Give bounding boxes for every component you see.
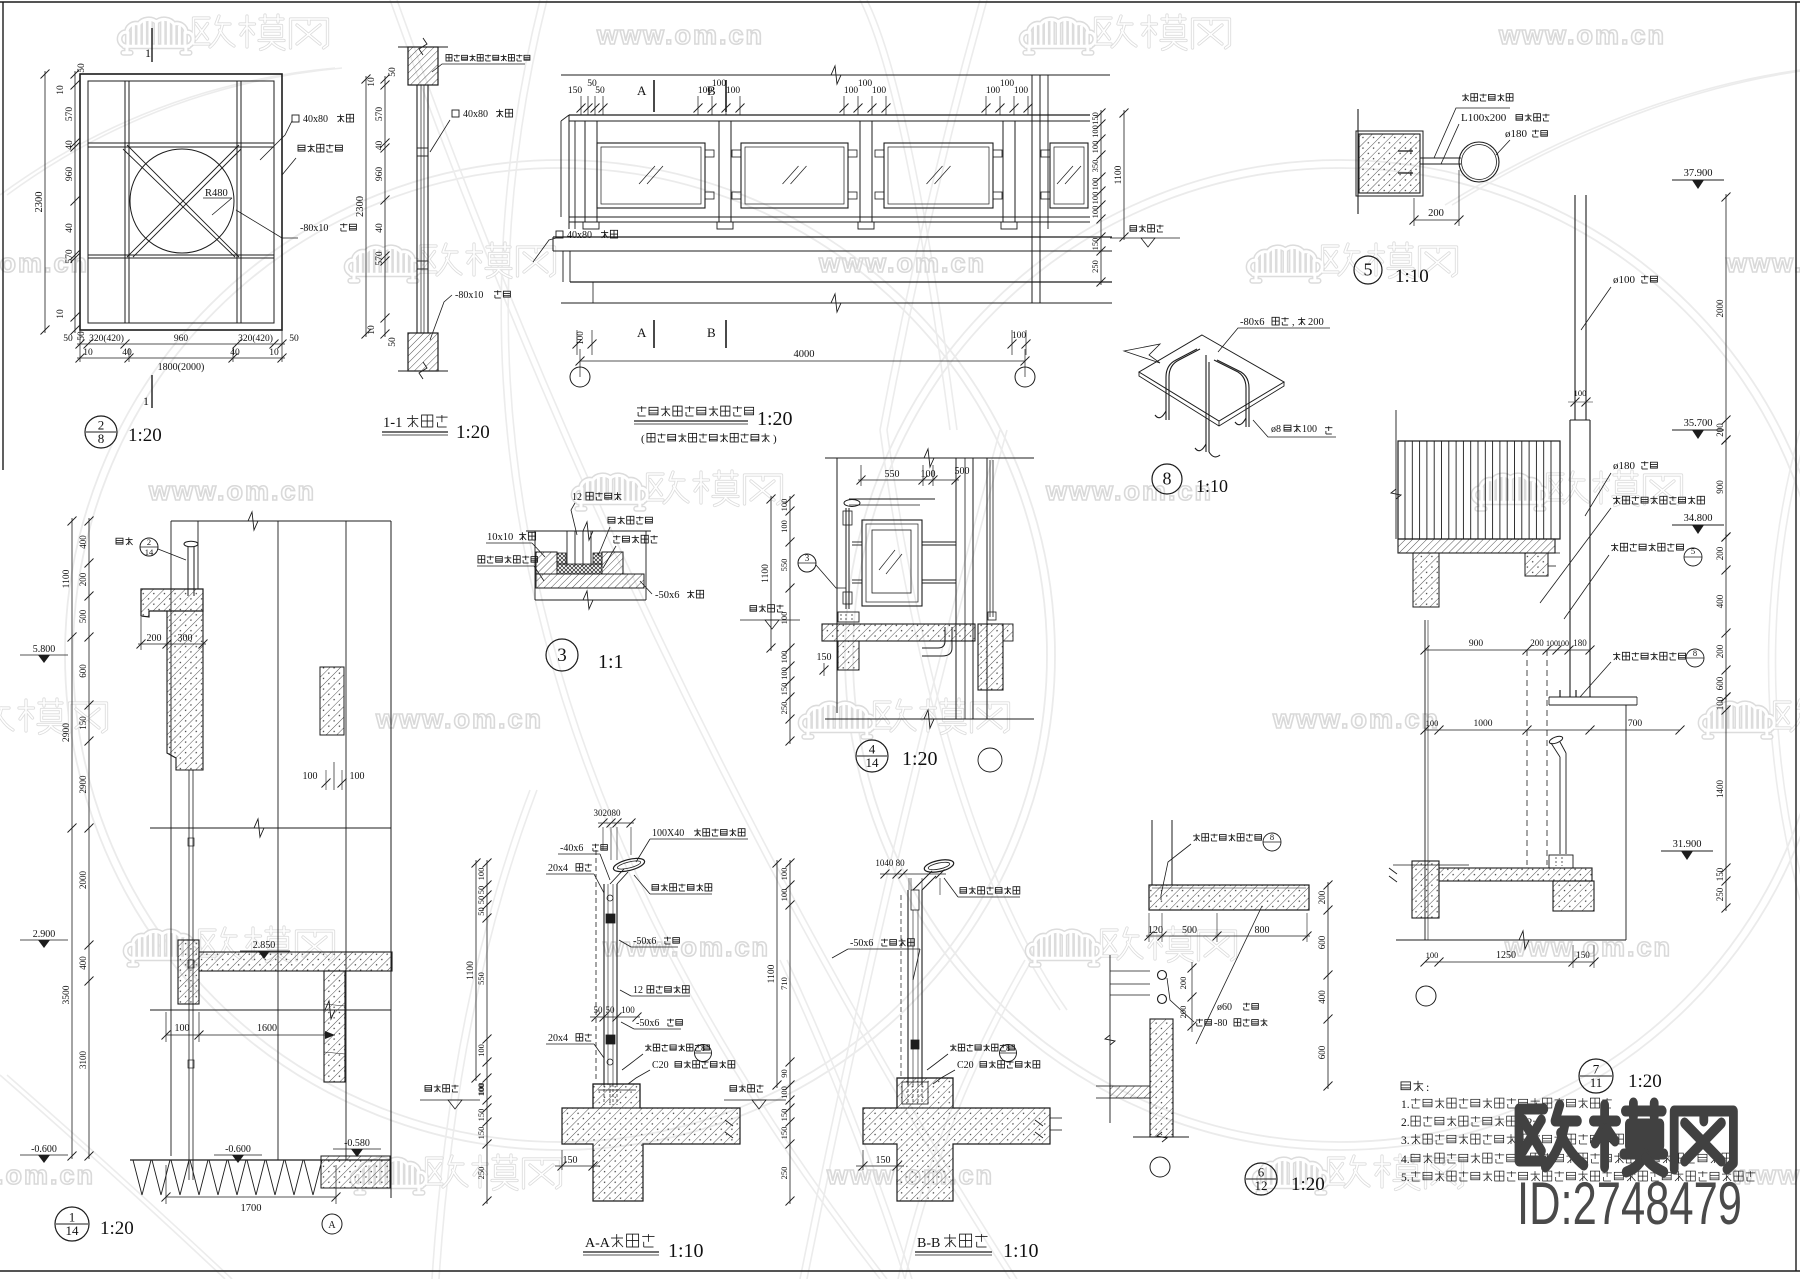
- panel mullions vertical: [124, 81, 126, 323]
- svg-text:www.om.cn: www.om.cn: [602, 932, 770, 962]
- svg-text:1.: 1.: [1401, 1099, 1410, 1111]
- panel bottom dim chain row2: [77, 357, 285, 359]
- svg-text:3: 3: [805, 553, 810, 563]
- svg-text:3.: 3.: [1401, 1135, 1410, 1147]
- svg-text:200: 200: [1530, 638, 1544, 648]
- r7 leader flatweld 5: [1613, 543, 1615, 551]
- svg-text:ø100: ø100: [1613, 274, 1636, 286]
- svg-text:B: B: [707, 325, 716, 340]
- detail3 left boundary: [534, 531, 536, 600]
- 1-1 left dim chain: [384, 76, 386, 337]
- d114 axis circle A: [322, 1214, 342, 1234]
- svg-text:200: 200: [78, 572, 88, 586]
- detail5 dim 200: [1414, 219, 1459, 221]
- r7 fence railing: [1398, 441, 1560, 539]
- AA left dim chain: [486, 860, 488, 1204]
- svg-text:1100: 1100: [761, 564, 771, 583]
- svg-text:12: 12: [633, 985, 643, 996]
- svg-text:100: 100: [779, 499, 789, 512]
- svg-text:50: 50: [388, 67, 398, 77]
- svg-text:100: 100: [844, 86, 859, 96]
- svg-text:www.om.cn: www.om.cn: [0, 248, 89, 278]
- svg-text:600: 600: [1715, 676, 1725, 690]
- svg-text:2.850: 2.850: [253, 940, 276, 951]
- detail5 hatched wall block: [1359, 134, 1420, 193]
- AA post details: [606, 914, 615, 923]
- svg-text:50: 50: [476, 896, 486, 905]
- svg-text:100: 100: [1302, 424, 1317, 435]
- r7 bracket shelf: [1549, 696, 1637, 698]
- svg-text:150: 150: [563, 1155, 578, 1166]
- svg-text:2.900: 2.900: [33, 929, 56, 940]
- svg-text:150: 150: [1090, 238, 1100, 251]
- BB leader polish: [960, 888, 967, 894]
- d114 mid floor break line: [150, 827, 391, 829]
- svg-text:100: 100: [1090, 178, 1100, 191]
- detail3 right channel block: [602, 552, 623, 574]
- BB floor level mark: [730, 1086, 737, 1092]
- detail4 window glass double line: [989, 460, 991, 617]
- svg-text:250: 250: [1090, 260, 1100, 273]
- svg-text:10: 10: [56, 85, 66, 95]
- svg-text:1100: 1100: [1114, 165, 1124, 184]
- d114 dim 1700: [166, 1196, 336, 1198]
- 1-1 label sealant: [446, 55, 452, 62]
- detail4 overall 1100: [770, 496, 772, 651]
- svg-text:1:10: 1:10: [1395, 266, 1429, 287]
- svg-text:www.om.cn: www.om.cn: [1272, 704, 1440, 734]
- d612 marker: [1245, 1163, 1277, 1195]
- svg-text:400: 400: [78, 956, 88, 970]
- svg-text:-50x6: -50x6: [636, 1018, 659, 1029]
- svg-text:4000: 4000: [794, 349, 815, 360]
- BB post verticals: [907, 890, 909, 1085]
- svg-text:1:20: 1:20: [1291, 1174, 1325, 1195]
- svg-text:4.: 4.: [1401, 1154, 1410, 1166]
- svg-text:100: 100: [872, 86, 887, 96]
- svg-text:1:10: 1:10: [668, 1240, 704, 1262]
- BB right stubs: [1050, 1117, 1062, 1119]
- svg-text:10x10: 10x10: [487, 532, 513, 543]
- svg-text:3: 3: [557, 645, 567, 666]
- svg-text:11: 11: [1590, 1075, 1603, 1090]
- svg-text:100: 100: [779, 667, 789, 680]
- svg-text:90: 90: [779, 1069, 789, 1078]
- svg-text:200: 200: [1308, 317, 1324, 328]
- svg-text:100: 100: [1557, 639, 1569, 648]
- big logo oumowang: [1519, 1103, 1733, 1172]
- svg-text:50: 50: [594, 1005, 604, 1015]
- AA leader weld embed: [647, 1044, 649, 1051]
- r7 marker 7/11: [1579, 1059, 1613, 1093]
- svg-text:www.om.cn: www.om.cn: [1045, 476, 1213, 506]
- svg-text:320(420): 320(420): [89, 333, 124, 344]
- svg-text:): ): [773, 433, 777, 445]
- detail4 slab hatch band: [822, 624, 975, 641]
- svg-text:150: 150: [476, 1109, 486, 1122]
- svg-text:C20: C20: [652, 1060, 669, 1071]
- panel mullions horizontal: [88, 142, 274, 144]
- svg-text:600: 600: [1317, 935, 1327, 949]
- svg-text:5: 5: [1691, 546, 1695, 556]
- svg-text:2300: 2300: [34, 192, 45, 213]
- svg-text:1400: 1400: [1715, 780, 1725, 799]
- elevation wall bottom line: [561, 302, 1112, 304]
- detail3 base plate: [536, 574, 644, 588]
- svg-text:550: 550: [779, 559, 789, 572]
- svg-text:20x4: 20x4: [548, 1033, 568, 1044]
- svg-text:40: 40: [230, 348, 240, 358]
- svg-text:960: 960: [375, 167, 385, 182]
- elevation floor level mark right: [1130, 226, 1137, 232]
- detail5 pipe circle: [1459, 142, 1499, 182]
- r7 slab left break arrows: [1389, 868, 1397, 882]
- r7 leader weld8: [1615, 652, 1617, 660]
- detail3 gaskets: [557, 553, 566, 564]
- elevation window panels: [597, 143, 705, 208]
- elevation left end post: [568, 115, 570, 229]
- elevation right dim chain inner: [1100, 110, 1102, 285]
- 1-1 overall dim 2300: [365, 76, 367, 337]
- r7 right dim chain mid: [1725, 534, 1727, 700]
- d612 left slab stub hatched: [1110, 1086, 1150, 1098]
- svg-text:100: 100: [476, 868, 486, 881]
- d114 wall inner lines: [202, 589, 204, 770]
- detail4 dims top: [858, 479, 959, 481]
- detail4 bottom break line: [825, 718, 1034, 720]
- svg-text:900: 900: [1715, 480, 1725, 494]
- r7 right edge vertical: [1625, 705, 1627, 940]
- svg-text:8: 8: [1270, 832, 1274, 842]
- big faint circle watermark right: [853, 168, 1800, 1142]
- elevation top wall line: [561, 74, 1110, 76]
- svg-text:100: 100: [1000, 79, 1015, 89]
- svg-text:50: 50: [77, 331, 87, 341]
- svg-text:570: 570: [65, 249, 75, 264]
- panel left dim chain: [74, 71, 76, 333]
- svg-text:250: 250: [779, 1167, 789, 1180]
- svg-text:100: 100: [350, 771, 365, 782]
- svg-text:100: 100: [476, 1044, 486, 1057]
- d114 lower break line: [150, 1009, 391, 1011]
- elevation posts: [584, 121, 586, 222]
- r7 slab left col hatched: [1413, 553, 1439, 607]
- watermark tiles lattice: [120, 15, 328, 53]
- svg-text:10: 10: [367, 77, 377, 87]
- svg-text:14: 14: [66, 1223, 80, 1238]
- svg-text:ø180: ø180: [1613, 460, 1636, 472]
- d612 beam hatched: [1149, 885, 1309, 910]
- svg-text:50: 50: [595, 86, 605, 96]
- svg-text:C20: C20: [957, 1060, 974, 1071]
- svg-text:ID:2748479: ID:2748479: [1517, 1170, 1742, 1237]
- AA foundation pocket: [593, 1084, 640, 1108]
- detail3 left channel block: [536, 552, 557, 574]
- svg-text:1-1: 1-1: [383, 415, 402, 431]
- svg-text:100: 100: [1014, 86, 1029, 96]
- detail8 bent bar left: [1166, 349, 1197, 420]
- svg-text:250: 250: [1715, 887, 1725, 901]
- AA hidden wall dashed: [595, 850, 597, 1080]
- faint swoosh curves: [880, 430, 1060, 1010]
- svg-text:100: 100: [1426, 950, 1439, 960]
- svg-text:50: 50: [289, 334, 299, 344]
- svg-text:,: ,: [1292, 317, 1295, 328]
- svg-text:L100x200: L100x200: [1461, 112, 1507, 124]
- r7 leader column200x500: [1615, 496, 1617, 504]
- detail8 center legs: [1205, 355, 1207, 452]
- svg-text:1:20: 1:20: [757, 408, 793, 430]
- svg-text:500: 500: [1182, 925, 1197, 936]
- svg-text:150: 150: [876, 1155, 891, 1166]
- r7 bottom dims 100 1250 150: [1425, 961, 1594, 963]
- d114 ground hatch: [133, 1160, 142, 1195]
- elevation right wall verticals: [1031, 75, 1033, 303]
- svg-text:120: 120: [1148, 925, 1163, 936]
- svg-text:3500: 3500: [62, 985, 72, 1004]
- svg-text:www.om.cn: www.om.cn: [1498, 20, 1666, 50]
- svg-text:700: 700: [1628, 719, 1643, 729]
- BB foundation pocket: [897, 1078, 953, 1108]
- detail5 bracket arm: [1420, 157, 1461, 159]
- detail3 bottom line: [535, 599, 646, 601]
- svg-text:960: 960: [65, 167, 75, 182]
- 1-1 break marks: [419, 38, 427, 55]
- BB overall 1100: [776, 860, 778, 1088]
- elevation lower rail: [569, 216, 1090, 218]
- svg-text:400: 400: [78, 535, 88, 549]
- svg-text:A: A: [637, 83, 647, 98]
- svg-text:50: 50: [388, 337, 398, 347]
- detail4 right hatched wall: [978, 624, 1003, 690]
- 1-1 section top hatched block: [408, 47, 438, 85]
- svg-text:500: 500: [955, 466, 970, 477]
- r7 drain pipe with cap: [1548, 735, 1563, 745]
- r7 mid dims 900 200 100 100 180: [1425, 649, 1590, 651]
- svg-text:2000: 2000: [78, 871, 88, 890]
- AA post verticals: [603, 884, 605, 1085]
- svg-text:1:10: 1:10: [1196, 476, 1228, 496]
- elevation handrail top: [569, 114, 1090, 116]
- d612 top verticals: [1151, 820, 1153, 885]
- svg-text:350: 350: [1090, 160, 1100, 173]
- svg-text:100: 100: [303, 771, 318, 782]
- detail8 plate parallelogram: [1139, 335, 1284, 421]
- detail4 stray circle: [978, 748, 1002, 772]
- svg-text:100: 100: [858, 79, 873, 89]
- svg-text:www.om.cn: www.om.cn: [0, 1160, 95, 1190]
- svg-text:200: 200: [1178, 977, 1188, 990]
- svg-text:100: 100: [1090, 206, 1100, 219]
- detail4 frame connectors: [852, 541, 862, 543]
- svg-text:40x80: 40x80: [567, 230, 592, 241]
- r7 right dim chain upper: [1725, 194, 1727, 443]
- detail4 left dim chain: [789, 496, 791, 744]
- svg-text:8: 8: [1006, 1044, 1010, 1053]
- svg-text:-0.600: -0.600: [225, 1144, 251, 1155]
- d114 parapet cap hatched: [141, 589, 203, 617]
- svg-text:600: 600: [78, 664, 88, 678]
- svg-text:R480: R480: [205, 188, 228, 199]
- svg-text:ø60: ø60: [1217, 1002, 1232, 1013]
- svg-text:100: 100: [712, 79, 727, 89]
- elevation overall dim 4000: [580, 360, 1025, 362]
- svg-text:1:20: 1:20: [1628, 1071, 1662, 1092]
- svg-text:400: 400: [1715, 594, 1725, 608]
- d114 rail embed line: [188, 770, 190, 1180]
- BB left dim chain: [789, 860, 791, 1204]
- svg-text:150: 150: [817, 652, 832, 663]
- svg-text:www.om.cn: www.om.cn: [148, 476, 316, 506]
- detail4 left vertical: [836, 458, 838, 713]
- svg-text:14: 14: [145, 547, 154, 557]
- svg-text:710: 710: [779, 977, 789, 990]
- panel overall dim 2300: [44, 71, 46, 333]
- AA leader polish: [652, 885, 659, 891]
- detail4 top rail lines: [849, 498, 935, 500]
- svg-text:31.900: 31.900: [1673, 839, 1702, 850]
- svg-text:5: 5: [1364, 259, 1373, 279]
- svg-text:100: 100: [726, 86, 741, 96]
- r7 pole upper: [1574, 195, 1576, 420]
- sheet border bottom: [0, 1270, 1800, 1272]
- svg-text:1: 1: [143, 394, 149, 408]
- svg-text:302080: 302080: [594, 808, 622, 818]
- svg-text:150: 150: [779, 1109, 789, 1122]
- svg-text:200: 200: [1317, 890, 1327, 904]
- detail4 marker: [856, 740, 888, 772]
- BB leader weld embed: [952, 1044, 954, 1051]
- d114 right found block hatched: [321, 1156, 390, 1188]
- svg-text:1100: 1100: [466, 961, 476, 980]
- d114 top line: [171, 520, 391, 522]
- elevation right dim overall 1100: [1123, 110, 1125, 240]
- d114 parapet wall hatched: [167, 611, 203, 770]
- svg-text:570: 570: [375, 251, 385, 266]
- svg-text:600: 600: [1317, 1045, 1327, 1059]
- detail3 rubber bed: [557, 564, 602, 574]
- svg-text:1000: 1000: [1474, 719, 1493, 729]
- svg-text:-80x10: -80x10: [455, 290, 483, 301]
- svg-text:-80x6: -80x6: [1240, 317, 1265, 328]
- svg-text:1700: 1700: [241, 1203, 262, 1214]
- svg-text:180: 180: [1573, 638, 1587, 648]
- d114 left dim chain outer: [71, 518, 73, 1159]
- panel detail 2/8 outer frame: [80, 74, 282, 330]
- d114 dim 100 1600: [166, 1034, 335, 1036]
- elevation small label 40x80: [556, 231, 563, 238]
- svg-text:5.800: 5.800: [33, 644, 56, 655]
- d612 leader embed flat: [1196, 1019, 1203, 1021]
- r7 dims 100 1000 700: [1425, 729, 1680, 731]
- svg-text:50: 50: [476, 907, 486, 916]
- 1-1 section panel vertical lines: [416, 85, 418, 333]
- d612 axis circle: [1150, 1157, 1170, 1177]
- marker 2/8 with scale: [85, 416, 117, 448]
- svg-text:250: 250: [779, 702, 789, 715]
- d612 dims 120 500 800: [1146, 935, 1310, 937]
- svg-text:900: 900: [1469, 639, 1484, 649]
- svg-text:1040 80: 1040 80: [875, 858, 905, 868]
- AA overall 1100: [475, 860, 477, 1081]
- detail8 marker: [1152, 464, 1182, 494]
- svg-text:1: 1: [145, 46, 151, 60]
- svg-text:550: 550: [476, 972, 486, 985]
- svg-text:1600: 1600: [257, 1023, 277, 1034]
- BB foundation right break marks: [1035, 1120, 1043, 1138]
- svg-text:100: 100: [1012, 331, 1027, 341]
- svg-text:1:10: 1:10: [1003, 1240, 1039, 1262]
- svg-text:200: 200: [1428, 208, 1444, 219]
- svg-text:1100: 1100: [767, 964, 777, 983]
- svg-text:100: 100: [779, 651, 789, 664]
- svg-text:570: 570: [375, 107, 385, 122]
- AA handrail arm: [610, 869, 624, 884]
- label 40x80 square tube with leader: [292, 115, 299, 122]
- svg-text:20x4: 20x4: [548, 863, 568, 874]
- svg-text:B-B: B-B: [917, 1236, 940, 1251]
- 1-1 section connector squares: [417, 148, 428, 156]
- svg-text:100: 100: [1426, 718, 1439, 728]
- d612 ground break: [1133, 1136, 1189, 1138]
- svg-text:40x80: 40x80: [303, 114, 328, 125]
- BB post top angled arm: [913, 871, 932, 890]
- svg-text:50: 50: [63, 334, 73, 344]
- svg-text:300: 300: [178, 633, 193, 644]
- svg-text:150: 150: [1090, 112, 1100, 125]
- svg-text:40: 40: [122, 348, 132, 358]
- svg-text:-0.600: -0.600: [31, 1144, 57, 1155]
- svg-text:150: 150: [78, 716, 88, 730]
- svg-text:250: 250: [476, 1167, 486, 1180]
- label exterior wall tile leader: [298, 145, 305, 151]
- svg-text:100: 100: [1090, 125, 1100, 138]
- svg-text:1:1: 1:1: [598, 651, 624, 673]
- r7 hidden pole dashed: [1526, 650, 1528, 865]
- svg-text:200: 200: [1715, 546, 1725, 560]
- svg-text:100: 100: [1090, 192, 1100, 205]
- detail4 drain elbow: [922, 627, 945, 648]
- svg-text:100: 100: [779, 612, 789, 625]
- svg-text:2900: 2900: [62, 723, 72, 742]
- detail5 leader weld: [1464, 94, 1466, 101]
- svg-text:A: A: [328, 1220, 336, 1231]
- d114 leader handrail 2/14: [116, 538, 123, 544]
- svg-text:500: 500: [78, 609, 88, 623]
- svg-text:100: 100: [175, 1023, 190, 1034]
- svg-text:1:20: 1:20: [902, 748, 938, 770]
- r7 fence slab hatched: [1398, 539, 1555, 553]
- panel diagonal cross: [127, 145, 239, 257]
- sheet border left segment: [2, 2, 4, 470]
- svg-text:3100: 3100: [78, 1051, 88, 1070]
- d612 pipe circles: [1158, 971, 1167, 980]
- detail3 right boundary: [645, 531, 647, 600]
- d114 ground line: [130, 1159, 390, 1161]
- svg-text:2.: 2.: [1401, 1117, 1410, 1129]
- r7 right dim chain lower: [1725, 694, 1727, 911]
- svg-text:1250: 1250: [1496, 950, 1516, 961]
- svg-text:50: 50: [77, 63, 87, 73]
- sheet border top: [0, 1, 1800, 3]
- svg-text:1:20: 1:20: [100, 1218, 134, 1239]
- svg-text:100: 100: [986, 86, 1001, 96]
- svg-text:320(420): 320(420): [238, 333, 273, 344]
- svg-text:150: 150: [779, 683, 789, 696]
- svg-text:100: 100: [698, 86, 713, 96]
- svg-text:-50x6: -50x6: [633, 936, 656, 947]
- d114 slab 2.850 hatched left block: [178, 940, 199, 1004]
